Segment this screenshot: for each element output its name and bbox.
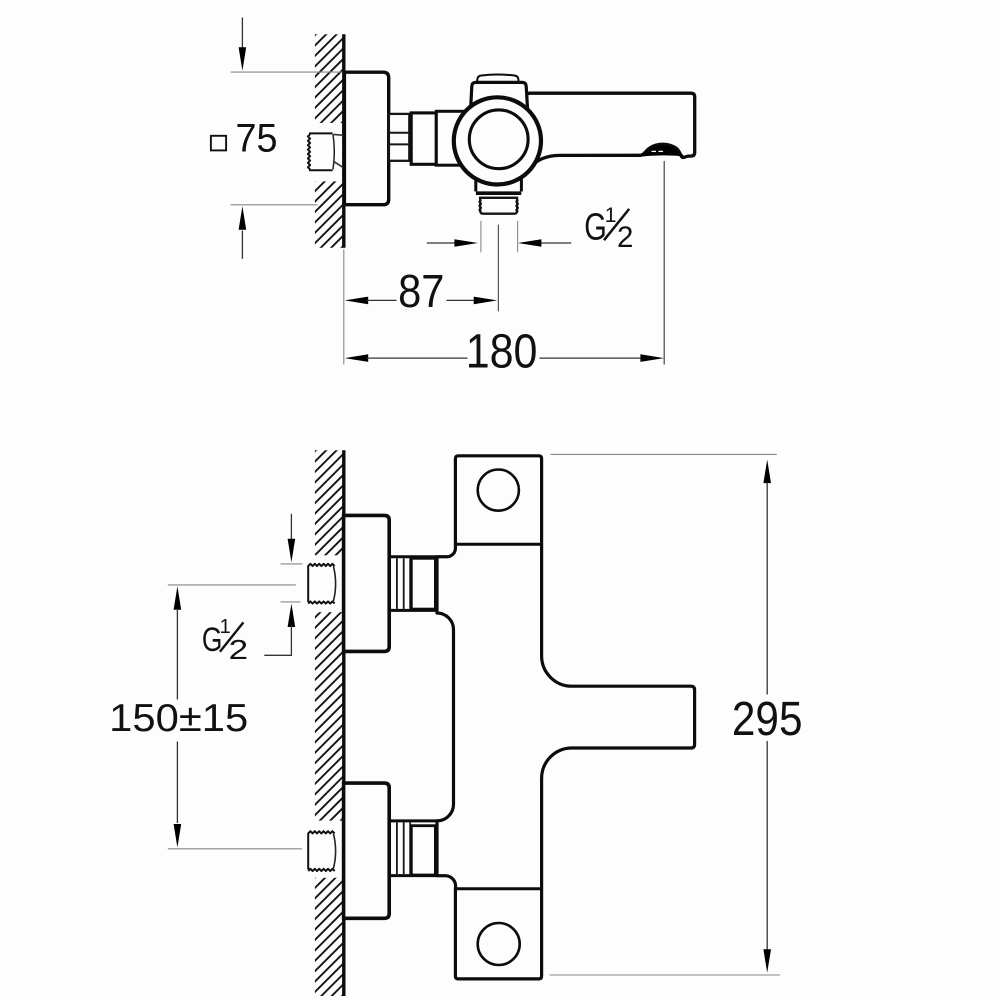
outlet flange (top view) — [476, 191, 521, 195]
upper supply pipe stub (bottom view) — [308, 564, 335, 604]
dimension 75 arrows — [241, 18, 243, 49]
wall flange / escutcheon (top view) — [344, 72, 388, 205]
bottom mounting plate divider — [455, 887, 541, 890]
bottom mounting hole — [478, 923, 520, 965]
valve handle inner circle (top view) — [469, 110, 528, 169]
temperature-stop cap on valve top (top view) — [477, 75, 519, 84]
svg-text:295: 295 — [732, 692, 803, 746]
top mounting hole — [478, 470, 519, 511]
upper union nut (bottom view) — [411, 558, 435, 609]
outlet width arrows — [427, 242, 455, 244]
svg-text:2: 2 — [229, 634, 249, 665]
extension line from aerator — [663, 161, 665, 365]
lower escutcheon (bottom view) — [344, 783, 390, 918]
top mounting plate divider — [455, 543, 541, 546]
stub dimension arrows — [290, 514, 292, 541]
mixer body profile (bottom view) — [437, 456, 695, 979]
svg-text:2: 2 — [617, 221, 633, 254]
wall surface line (bottom view) — [342, 450, 345, 996]
outlet centre line — [497, 225, 499, 312]
G1/2 stub dimension ticks — [281, 563, 303, 565]
dimension 87 — [345, 297, 369, 305]
svg-text:87: 87 — [398, 265, 444, 317]
inlet piece between nut and valve body (top view) — [436, 111, 468, 165]
threaded connector behind union nut (top view) — [389, 114, 409, 161]
svg-text:1: 1 — [605, 204, 617, 227]
wall surface line (top view) — [342, 34, 345, 248]
hatch gaps at the two wall unions — [307, 555, 342, 612]
square symbol for 75 — [211, 136, 226, 151]
wall hatch gap for supply pipe — [307, 123, 342, 181]
union nut (top view) — [411, 113, 436, 164]
outlet width extension lines — [480, 221, 482, 252]
lower union nut (bottom view) — [411, 826, 435, 875]
dimension 180 — [345, 354, 369, 362]
dimension 295 — [551, 453, 777, 455]
svg-text:180: 180 — [466, 324, 538, 378]
dimension 150±15 — [168, 584, 296, 586]
svg-text:150±15: 150±15 — [109, 697, 248, 740]
upper union boss lines — [389, 555, 447, 558]
aerator opening on spout underside — [639, 145, 685, 157]
threaded shower-hose nipple G1/2 (top view) — [480, 198, 517, 214]
upper union threaded shank — [396, 558, 398, 609]
thermostatic valve body outer circle (top view) — [454, 97, 541, 184]
lower union boss lines — [389, 819, 447, 822]
lower union threaded shank — [396, 823, 398, 875]
dimension 75 extension lines — [231, 71, 343, 73]
supply pipe stub behind wall (top view) — [308, 133, 343, 170]
svg-text:G: G — [584, 207, 607, 249]
extension of wall surface down to dimension lines — [343, 250, 345, 365]
leader to G1/2 label — [264, 654, 292, 656]
spout (top view) — [524, 93, 695, 166]
upper escutcheon (bottom view) — [344, 515, 390, 651]
outlet neck below valve (top view) — [474, 165, 523, 191]
svg-text:75: 75 — [236, 117, 278, 161]
lower supply pipe stub (bottom view) — [308, 831, 335, 871]
